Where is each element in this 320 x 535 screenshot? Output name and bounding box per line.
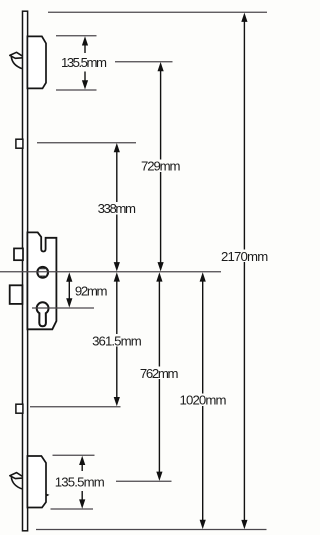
faceplate strip (edge view) <box>23 11 28 531</box>
arrow 135.5mm top <box>82 36 88 89</box>
svg-text:1020mm: 1020mm <box>180 393 227 408</box>
arrow 135.5mm bottom <box>79 456 85 509</box>
top hook case <box>27 36 46 88</box>
deadbolt <box>10 285 23 304</box>
ref line bottom hook centre <box>116 480 172 482</box>
svg-text:2170mm: 2170mm <box>221 249 268 264</box>
ref line top hook upper <box>56 35 97 37</box>
bottom hook bolt <box>10 473 23 489</box>
svg-text:762mm: 762mm <box>140 366 179 381</box>
svg-text:135.5mm: 135.5mm <box>61 55 107 70</box>
svg-text:361.5mm: 361.5mm <box>92 333 142 348</box>
bottom hook case <box>27 456 47 508</box>
latch bolt <box>14 248 23 260</box>
svg-text:135.5mm: 135.5mm <box>55 474 105 489</box>
ref line bottom of strip <box>36 529 267 531</box>
euro cylinder keyhole <box>37 302 49 326</box>
roller cam top <box>16 139 23 148</box>
top hook bolt <box>10 52 23 68</box>
dimension labels <box>55 55 268 489</box>
arrow 1020mm <box>200 272 206 529</box>
ref line cylinder centre <box>32 307 94 309</box>
ref line top hook centre <box>115 61 173 63</box>
spindle hub <box>37 267 48 278</box>
ref line bottom roller centre <box>30 406 121 408</box>
ref line spindle centre <box>0 271 221 273</box>
svg-text:92mm: 92mm <box>75 283 108 298</box>
svg-text:338mm: 338mm <box>98 201 136 216</box>
arrow 729mm <box>158 62 164 271</box>
arrow 92mm <box>66 272 72 307</box>
arrow 2170mm <box>241 13 247 530</box>
arrow 338mm <box>114 143 120 271</box>
ref line top of strip <box>48 11 267 13</box>
ref line bottom hook lower <box>51 508 94 510</box>
arrow 361.5mm <box>114 272 120 406</box>
ref line bottom hook upper <box>53 454 95 456</box>
arrow 762mm <box>156 272 162 481</box>
ref line top hook lower <box>56 89 97 91</box>
svg-text:729mm: 729mm <box>141 159 181 174</box>
label backgrounds <box>54 160 270 488</box>
ref line top roller centre <box>37 142 136 144</box>
dimension arrows <box>66 13 247 530</box>
roller cam bottom <box>16 404 23 413</box>
gearbox case <box>27 232 56 329</box>
